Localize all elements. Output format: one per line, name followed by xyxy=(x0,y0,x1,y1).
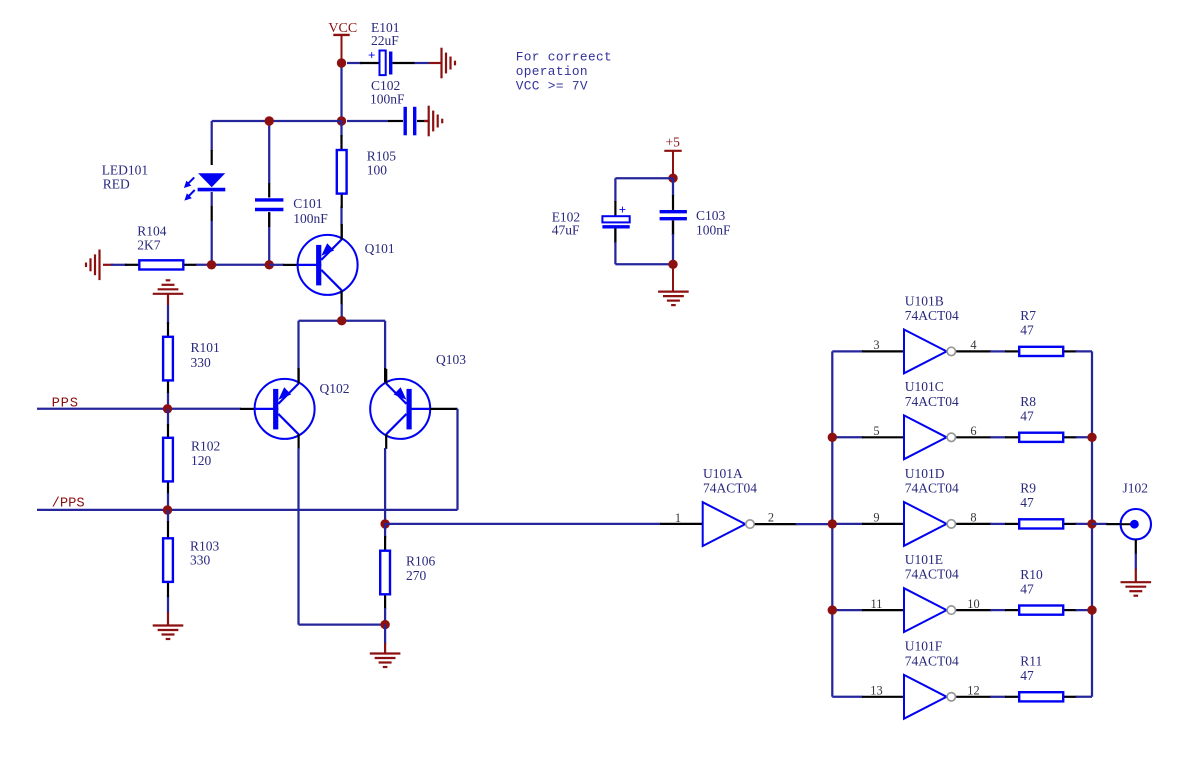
label U101C 74ACT04 xyxy=(905,379,959,409)
svg-text:47: 47 xyxy=(1020,409,1034,424)
pin xyxy=(755,523,797,525)
wire xyxy=(211,121,213,265)
svg-text:100nF: 100nF xyxy=(293,211,328,226)
ground xyxy=(153,612,184,639)
transistor Q103 xyxy=(370,369,430,449)
svg-text:Q101: Q101 xyxy=(365,241,395,256)
label R102 120 xyxy=(191,438,220,468)
label Q103 xyxy=(436,352,466,367)
svg-text:Q103: Q103 xyxy=(436,352,466,367)
svg-text:100nF: 100nF xyxy=(696,223,731,238)
pin xyxy=(430,408,458,410)
label R9 47 xyxy=(1020,481,1036,510)
svg-text:5: 5 xyxy=(873,424,879,438)
label R101 330 xyxy=(191,340,220,370)
wire xyxy=(269,264,284,266)
wire xyxy=(1076,350,1092,352)
wire xyxy=(990,350,1006,352)
inverter U101C xyxy=(904,415,956,459)
pin xyxy=(167,322,169,394)
pin 8 xyxy=(956,511,991,525)
junction xyxy=(828,605,837,614)
pin 4 xyxy=(956,338,991,352)
wire PPS xyxy=(37,408,241,410)
wire xyxy=(990,696,1006,698)
wire xyxy=(832,350,863,352)
wire xyxy=(384,625,386,644)
svg-text:6: 6 xyxy=(970,424,976,438)
label J102 xyxy=(1123,481,1149,496)
pin xyxy=(1135,539,1137,554)
svg-text:74ACT04: 74ACT04 xyxy=(905,308,959,323)
note text xyxy=(516,49,612,93)
svg-text:47uF: 47uF xyxy=(552,223,580,238)
pin xyxy=(388,120,424,122)
inverter U101B xyxy=(904,330,956,374)
svg-text:330: 330 xyxy=(190,552,211,567)
label R106 270 xyxy=(406,554,436,584)
resistor R103 xyxy=(163,538,173,582)
wire xyxy=(456,409,458,510)
label Q101 xyxy=(365,241,395,256)
svg-text:+: + xyxy=(368,48,375,63)
junction xyxy=(1087,433,1096,442)
svg-text:R11: R11 xyxy=(1020,654,1042,669)
pin 9 xyxy=(862,511,904,525)
label R103 330 xyxy=(190,538,220,567)
capacitor C101 xyxy=(255,200,283,210)
wire xyxy=(832,436,863,438)
svg-text:10: 10 xyxy=(967,597,979,611)
pin xyxy=(299,368,386,384)
pin xyxy=(1005,436,1077,438)
label Q102 xyxy=(320,381,350,396)
svg-text:R104: R104 xyxy=(137,224,167,239)
junction xyxy=(668,260,677,269)
svg-text:R103: R103 xyxy=(190,538,220,553)
connector J102 xyxy=(1121,509,1151,539)
svg-text:R106: R106 xyxy=(406,554,436,569)
label U101F 74ACT04 xyxy=(905,639,959,669)
label C101 100nF xyxy=(293,196,328,226)
ground xyxy=(86,250,113,281)
resistor R7 xyxy=(1019,347,1063,356)
pin xyxy=(615,221,673,244)
pin xyxy=(384,536,386,609)
svg-text:U101C: U101C xyxy=(905,379,944,394)
svg-text:4: 4 xyxy=(970,338,976,352)
svg-text:120: 120 xyxy=(191,453,212,468)
capacitor E101 xyxy=(368,48,391,76)
svg-text:13: 13 xyxy=(870,684,882,698)
svg-text:LED101: LED101 xyxy=(102,163,149,178)
resistor R8 xyxy=(1019,433,1063,442)
wire xyxy=(347,62,429,64)
junction xyxy=(207,260,216,269)
svg-text:R7: R7 xyxy=(1020,308,1036,323)
svg-text:R101: R101 xyxy=(191,340,220,355)
svg-text:U101F: U101F xyxy=(905,639,943,654)
svg-text:U101D: U101D xyxy=(905,466,945,481)
wire xyxy=(212,120,342,122)
svg-text:47: 47 xyxy=(1020,495,1034,510)
wire xyxy=(615,221,673,244)
wire xyxy=(1076,696,1092,698)
pin 5 xyxy=(862,424,904,438)
ground xyxy=(429,48,455,79)
ground xyxy=(153,280,184,306)
label U101B 74ACT04 xyxy=(905,293,959,323)
pin 3 xyxy=(862,338,904,352)
svg-text:74ACT04: 74ACT04 xyxy=(905,567,959,582)
label C103 100nF xyxy=(696,208,731,237)
pin xyxy=(283,264,298,266)
svg-text:11: 11 xyxy=(871,597,883,611)
svg-text:operation: operation xyxy=(516,64,588,79)
wire xyxy=(167,597,169,613)
resistor R10 xyxy=(1019,606,1063,615)
wire xyxy=(111,264,127,266)
pin xyxy=(268,183,270,227)
pin number 2 xyxy=(768,510,774,524)
transistor Q102 xyxy=(255,369,315,449)
LED LED101 xyxy=(184,173,225,200)
svg-text:R9: R9 xyxy=(1020,481,1036,496)
pin xyxy=(615,195,673,216)
junction xyxy=(337,316,346,325)
net label PPS xyxy=(52,397,79,412)
junction xyxy=(265,116,274,125)
junction xyxy=(265,260,274,269)
capacitor E102 xyxy=(602,202,629,227)
svg-text:1: 1 xyxy=(675,511,681,525)
svg-text:R8: R8 xyxy=(1020,394,1036,409)
resistor R102 xyxy=(163,438,173,482)
svg-text:100nF: 100nF xyxy=(370,91,405,106)
label U101D 74ACT04 xyxy=(905,466,959,496)
junction xyxy=(828,433,837,442)
pin number 1 xyxy=(675,511,681,525)
svg-text:3: 3 xyxy=(873,338,879,352)
svg-text:22uF: 22uF xyxy=(371,33,399,48)
ground xyxy=(370,643,401,667)
transistor Q101 xyxy=(298,225,358,305)
resistor R105 xyxy=(337,150,347,194)
wire xyxy=(167,305,169,324)
wire xyxy=(832,696,863,698)
svg-text:C101: C101 xyxy=(293,196,322,211)
wire xyxy=(167,393,169,409)
wire xyxy=(340,63,342,121)
svg-text:J102: J102 xyxy=(1123,481,1149,496)
junction xyxy=(163,404,172,413)
label R104 2K7 xyxy=(137,224,167,253)
svg-text:2: 2 xyxy=(768,510,774,524)
wire bus left xyxy=(831,351,833,696)
wire xyxy=(196,264,269,266)
resistor R106 xyxy=(380,551,390,595)
label R8 47 xyxy=(1020,394,1036,423)
label C102 100nF xyxy=(370,78,405,106)
resistor R104 xyxy=(139,260,183,269)
wire xyxy=(268,121,270,265)
svg-text:For correect: For correect xyxy=(516,49,612,64)
junction xyxy=(380,620,389,629)
ground xyxy=(658,264,689,305)
svg-text:2K7: 2K7 xyxy=(137,238,160,253)
power port +5 xyxy=(664,135,681,179)
wire xyxy=(384,524,386,538)
pin xyxy=(167,521,169,598)
svg-text:47: 47 xyxy=(1020,668,1034,683)
wire xyxy=(832,523,863,525)
wire xyxy=(1076,523,1092,525)
wire xyxy=(1092,523,1107,525)
wire bus right xyxy=(1091,351,1093,696)
svg-text:R10: R10 xyxy=(1020,567,1043,582)
pin xyxy=(240,408,255,410)
svg-text:C103: C103 xyxy=(696,208,726,223)
svg-text:U101E: U101E xyxy=(905,552,943,567)
inverter U101F xyxy=(904,675,956,719)
svg-text:100: 100 xyxy=(367,163,388,178)
pin xyxy=(340,135,342,240)
svg-text:74ACT04: 74ACT04 xyxy=(905,653,959,668)
pin xyxy=(360,62,415,64)
ground xyxy=(1121,569,1152,596)
pin 6 xyxy=(956,424,991,438)
svg-text:+5: +5 xyxy=(666,135,681,150)
svg-text:270: 270 xyxy=(406,568,427,583)
wire xyxy=(1076,609,1092,611)
wire xyxy=(615,178,673,202)
svg-text:74ACT04: 74ACT04 xyxy=(703,481,757,496)
wire xyxy=(832,609,863,611)
inverter U101D xyxy=(904,502,956,546)
inverter U101A xyxy=(703,502,755,546)
svg-text:9: 9 xyxy=(873,511,879,525)
wire xyxy=(167,493,169,510)
svg-text:47: 47 xyxy=(1020,581,1034,596)
inverter U101E xyxy=(904,588,956,632)
wire xyxy=(340,121,342,226)
svg-text:VCC >= 7V: VCC >= 7V xyxy=(516,79,588,94)
pin xyxy=(1005,523,1077,525)
wire xyxy=(990,523,1006,525)
pin 12 xyxy=(956,684,991,698)
svg-text:+: + xyxy=(619,202,626,217)
wire xyxy=(990,436,1006,438)
label E102 47uF xyxy=(552,210,581,238)
svg-text:12: 12 xyxy=(967,684,979,698)
wire xyxy=(990,609,1006,611)
wire xyxy=(796,523,833,525)
wire xyxy=(347,120,429,122)
junction xyxy=(163,505,172,514)
resistor R11 xyxy=(1019,692,1063,701)
pin xyxy=(1005,696,1077,698)
label R10 47 xyxy=(1020,567,1043,596)
label R105 100 xyxy=(367,148,397,177)
junction xyxy=(380,519,389,528)
junction xyxy=(1087,605,1096,614)
label LED101 RED xyxy=(102,163,149,192)
label U101E 74ACT04 xyxy=(905,552,959,582)
svg-text:330: 330 xyxy=(191,355,212,370)
pin 11 xyxy=(862,597,904,611)
wire xyxy=(384,608,386,625)
junction xyxy=(828,519,837,528)
junction xyxy=(1087,519,1096,528)
wire xyxy=(299,304,386,369)
pin 10 xyxy=(956,597,991,611)
svg-text:U101A: U101A xyxy=(703,466,743,481)
wire xyxy=(615,234,673,264)
svg-text:74ACT04: 74ACT04 xyxy=(905,481,959,496)
svg-text:Q102: Q102 xyxy=(320,381,350,396)
pin xyxy=(211,150,213,221)
junction xyxy=(668,174,677,183)
ground xyxy=(424,106,442,137)
pin xyxy=(125,264,197,266)
svg-text:8: 8 xyxy=(970,511,976,525)
wire xyxy=(384,448,386,524)
svg-text:R105: R105 xyxy=(367,148,397,163)
pin xyxy=(1005,350,1077,352)
capacitor C102 xyxy=(405,107,415,136)
power port VCC xyxy=(328,21,357,63)
wire xyxy=(385,523,661,525)
net label /PPS xyxy=(52,496,85,512)
pin xyxy=(1106,523,1132,525)
resistor R9 xyxy=(1019,519,1063,528)
label R11 47 xyxy=(1020,654,1042,683)
pin xyxy=(660,523,703,525)
label U101A 74ACT04 xyxy=(703,466,757,496)
svg-text:U101B: U101B xyxy=(905,293,944,308)
wire xyxy=(1076,436,1092,438)
svg-text:RED: RED xyxy=(103,177,130,192)
wire xyxy=(1135,554,1137,570)
pin xyxy=(167,424,169,495)
wire xyxy=(167,409,169,426)
pin 13 xyxy=(862,684,904,698)
svg-text:74ACT04: 74ACT04 xyxy=(905,394,959,409)
junction xyxy=(337,58,346,67)
wire /PPS xyxy=(37,509,458,511)
pin xyxy=(1005,609,1077,611)
svg-text:47: 47 xyxy=(1020,323,1034,338)
wire xyxy=(167,510,169,522)
junction xyxy=(337,116,346,125)
label E101 22uF xyxy=(371,20,400,48)
capacitor C103 xyxy=(660,212,687,219)
wire xyxy=(299,448,386,625)
resistor R101 xyxy=(163,337,173,381)
svg-text:R102: R102 xyxy=(191,438,220,453)
label R7 47 xyxy=(1020,308,1036,337)
